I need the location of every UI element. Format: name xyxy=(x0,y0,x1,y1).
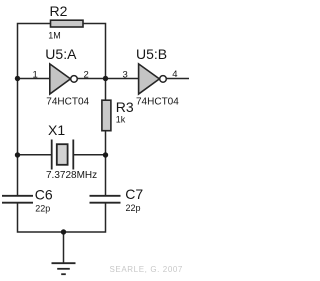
svg-text:C7: C7 xyxy=(125,186,143,202)
svg-text:R3: R3 xyxy=(116,99,134,115)
svg-text:C6: C6 xyxy=(35,187,53,203)
svg-text:SEARLE, G. 2007: SEARLE, G. 2007 xyxy=(110,265,183,274)
svg-text:1M: 1M xyxy=(48,31,61,41)
svg-text:74HCT04: 74HCT04 xyxy=(136,96,179,107)
svg-text:1: 1 xyxy=(33,70,38,81)
svg-text:U5:B: U5:B xyxy=(136,46,167,62)
svg-text:3: 3 xyxy=(123,70,128,81)
svg-text:4: 4 xyxy=(172,69,177,80)
svg-text:74HCT04: 74HCT04 xyxy=(46,96,89,107)
svg-text:22p: 22p xyxy=(126,203,141,213)
svg-text:2: 2 xyxy=(84,70,89,81)
svg-text:7.3728MHz: 7.3728MHz xyxy=(46,170,97,181)
svg-text:U5:A: U5:A xyxy=(45,46,77,62)
svg-text:22p: 22p xyxy=(35,204,50,214)
svg-text:R2: R2 xyxy=(50,3,68,19)
svg-text:X1: X1 xyxy=(48,122,65,138)
svg-text:1k: 1k xyxy=(116,115,126,125)
